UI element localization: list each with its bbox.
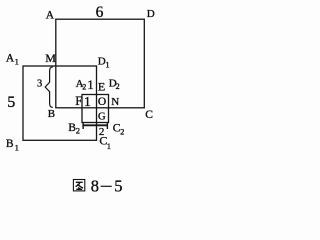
svg-text:5: 5 [7,94,15,111]
svg-text:B: B [48,108,55,120]
svg-text:2: 2 [82,83,86,92]
svg-text:O: O [98,96,106,108]
svg-text:D: D [147,8,155,20]
dimension tick right [106,123,108,130]
svg-text:5: 5 [114,177,122,196]
caption glyph tu (figure) [73,180,84,191]
svg-text:N: N [111,96,119,108]
svg-text:C: C [145,109,153,121]
dimension line under B2C2 [82,124,108,126]
svg-text:A: A [46,9,55,21]
svg-text:G: G [98,112,106,123]
square ABCD (side 6) [56,19,145,108]
svg-text:8: 8 [91,177,99,196]
svg-text:E: E [98,80,105,94]
square A1B1C1D1 (side 5) [23,66,97,140]
svg-text:1: 1 [107,141,111,151]
svg-text:1: 1 [15,143,19,153]
svg-text:1: 1 [105,60,109,70]
svg-text:1: 1 [15,56,19,66]
svg-text:6: 6 [96,4,104,21]
svg-text:1: 1 [84,94,91,109]
svg-text:F: F [75,94,82,108]
brace for 3 (M to B) [45,67,53,108]
svg-text:3: 3 [37,79,42,90]
svg-text:2: 2 [76,126,80,136]
svg-text:A: A [6,52,15,64]
dimension tick left [82,123,84,130]
svg-text:2: 2 [120,127,124,137]
svg-text:B: B [6,138,14,150]
svg-text:1: 1 [87,77,94,92]
svg-text:2: 2 [116,82,120,91]
svg-text:M: M [45,51,56,65]
square A2B2C2D2 (side 2) [82,95,109,123]
